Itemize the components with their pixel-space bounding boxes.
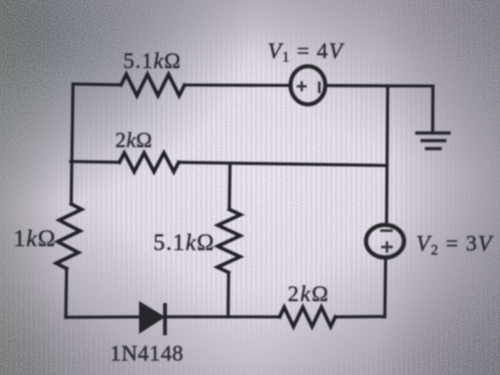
wire top (V1 right to TR corner) xyxy=(327,84,433,88)
diode D1 cathode bar xyxy=(163,303,167,335)
svg-text:V1 = 4V: V1 = 4V xyxy=(268,38,345,66)
voltage source U1 V1 (circle) xyxy=(291,66,326,104)
svg-text:5.1kΩ: 5.1kΩ xyxy=(123,48,181,73)
wire V2 branch (top wire junction down to V2) xyxy=(387,86,388,224)
ground xyxy=(415,133,450,149)
wire left vertical (1k bottom to BL corner) xyxy=(64,269,68,318)
V2 minus bar (horizontal) xyxy=(380,229,393,232)
resistor R1 5.1k (top horizontal) xyxy=(121,74,185,95)
wire left vertical (TL corner down to 1k top) xyxy=(71,84,73,204)
voltage source U2 V2 (circle) xyxy=(366,225,404,258)
diode D1 (triangle anode) xyxy=(140,302,165,333)
V2 plus sign xyxy=(381,241,393,252)
wire V2 branch (V2 bottom to BR corner) xyxy=(383,259,387,317)
resistor R4 1k (left vertical) xyxy=(56,204,81,269)
svg-text:2kΩ: 2kΩ xyxy=(115,128,152,152)
resistor R2 2k (row2 horizontal) xyxy=(119,153,178,172)
svg-text:1kΩ: 1kΩ xyxy=(14,226,57,252)
svg-text:V2 = 3V: V2 = 3V xyxy=(416,231,494,259)
svg-text:2kΩ: 2kΩ xyxy=(288,281,330,306)
wire top (TL corner to 5.1k) xyxy=(73,82,121,86)
wire middle branch (row2 junction down to 5.1k top) xyxy=(228,164,232,210)
V1 minus bar (vertical) xyxy=(318,82,321,94)
wire row2 (left wire to 2k) xyxy=(71,160,120,164)
svg-text:1N4148: 1N4148 xyxy=(110,340,184,365)
wire bottom (2k to BR corner) xyxy=(335,315,385,318)
wire middle branch (5.1k bottom to bottom wire) xyxy=(227,273,231,317)
V1 plus sign xyxy=(297,81,307,91)
wire row2 (2k to V2 branch junction) xyxy=(179,162,386,165)
resistor R3 5.1k (middle vertical) xyxy=(217,209,240,272)
wire bottom (diode to 2k) xyxy=(166,315,280,318)
svg-text:5.1kΩ: 5.1kΩ xyxy=(153,230,215,255)
wire bottom (BL corner to diode) xyxy=(66,315,140,318)
wire ground stub xyxy=(431,86,434,132)
resistor R5 2k (bottom horizontal) xyxy=(280,307,336,326)
wire top (5.1k to V1 left) xyxy=(185,83,290,87)
